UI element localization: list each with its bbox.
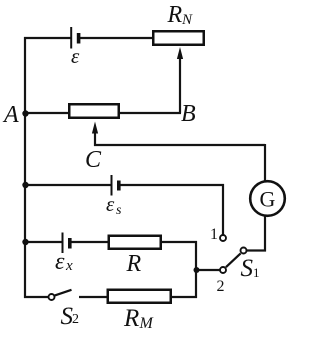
svg-text:C: C	[85, 147, 102, 173]
svg-text:R: R	[126, 251, 142, 277]
svg-text:S: S	[241, 255, 254, 282]
svg-text:ε: ε	[106, 192, 115, 216]
svg-text:ε: ε	[55, 249, 65, 275]
svg-text:2: 2	[217, 278, 225, 295]
svg-text:N: N	[181, 12, 193, 28]
svg-text:A: A	[2, 102, 19, 128]
svg-text:2: 2	[72, 312, 79, 327]
svg-text:1: 1	[253, 265, 260, 280]
svg-text:M: M	[139, 315, 155, 332]
svg-text:s: s	[116, 203, 122, 218]
svg-text:R: R	[123, 305, 139, 332]
svg-text:ε: ε	[71, 44, 80, 68]
svg-text:x: x	[65, 258, 73, 274]
svg-text:1: 1	[210, 226, 218, 243]
svg-text:R: R	[167, 2, 183, 28]
svg-text:G: G	[260, 187, 276, 212]
svg-text:B: B	[181, 101, 196, 127]
